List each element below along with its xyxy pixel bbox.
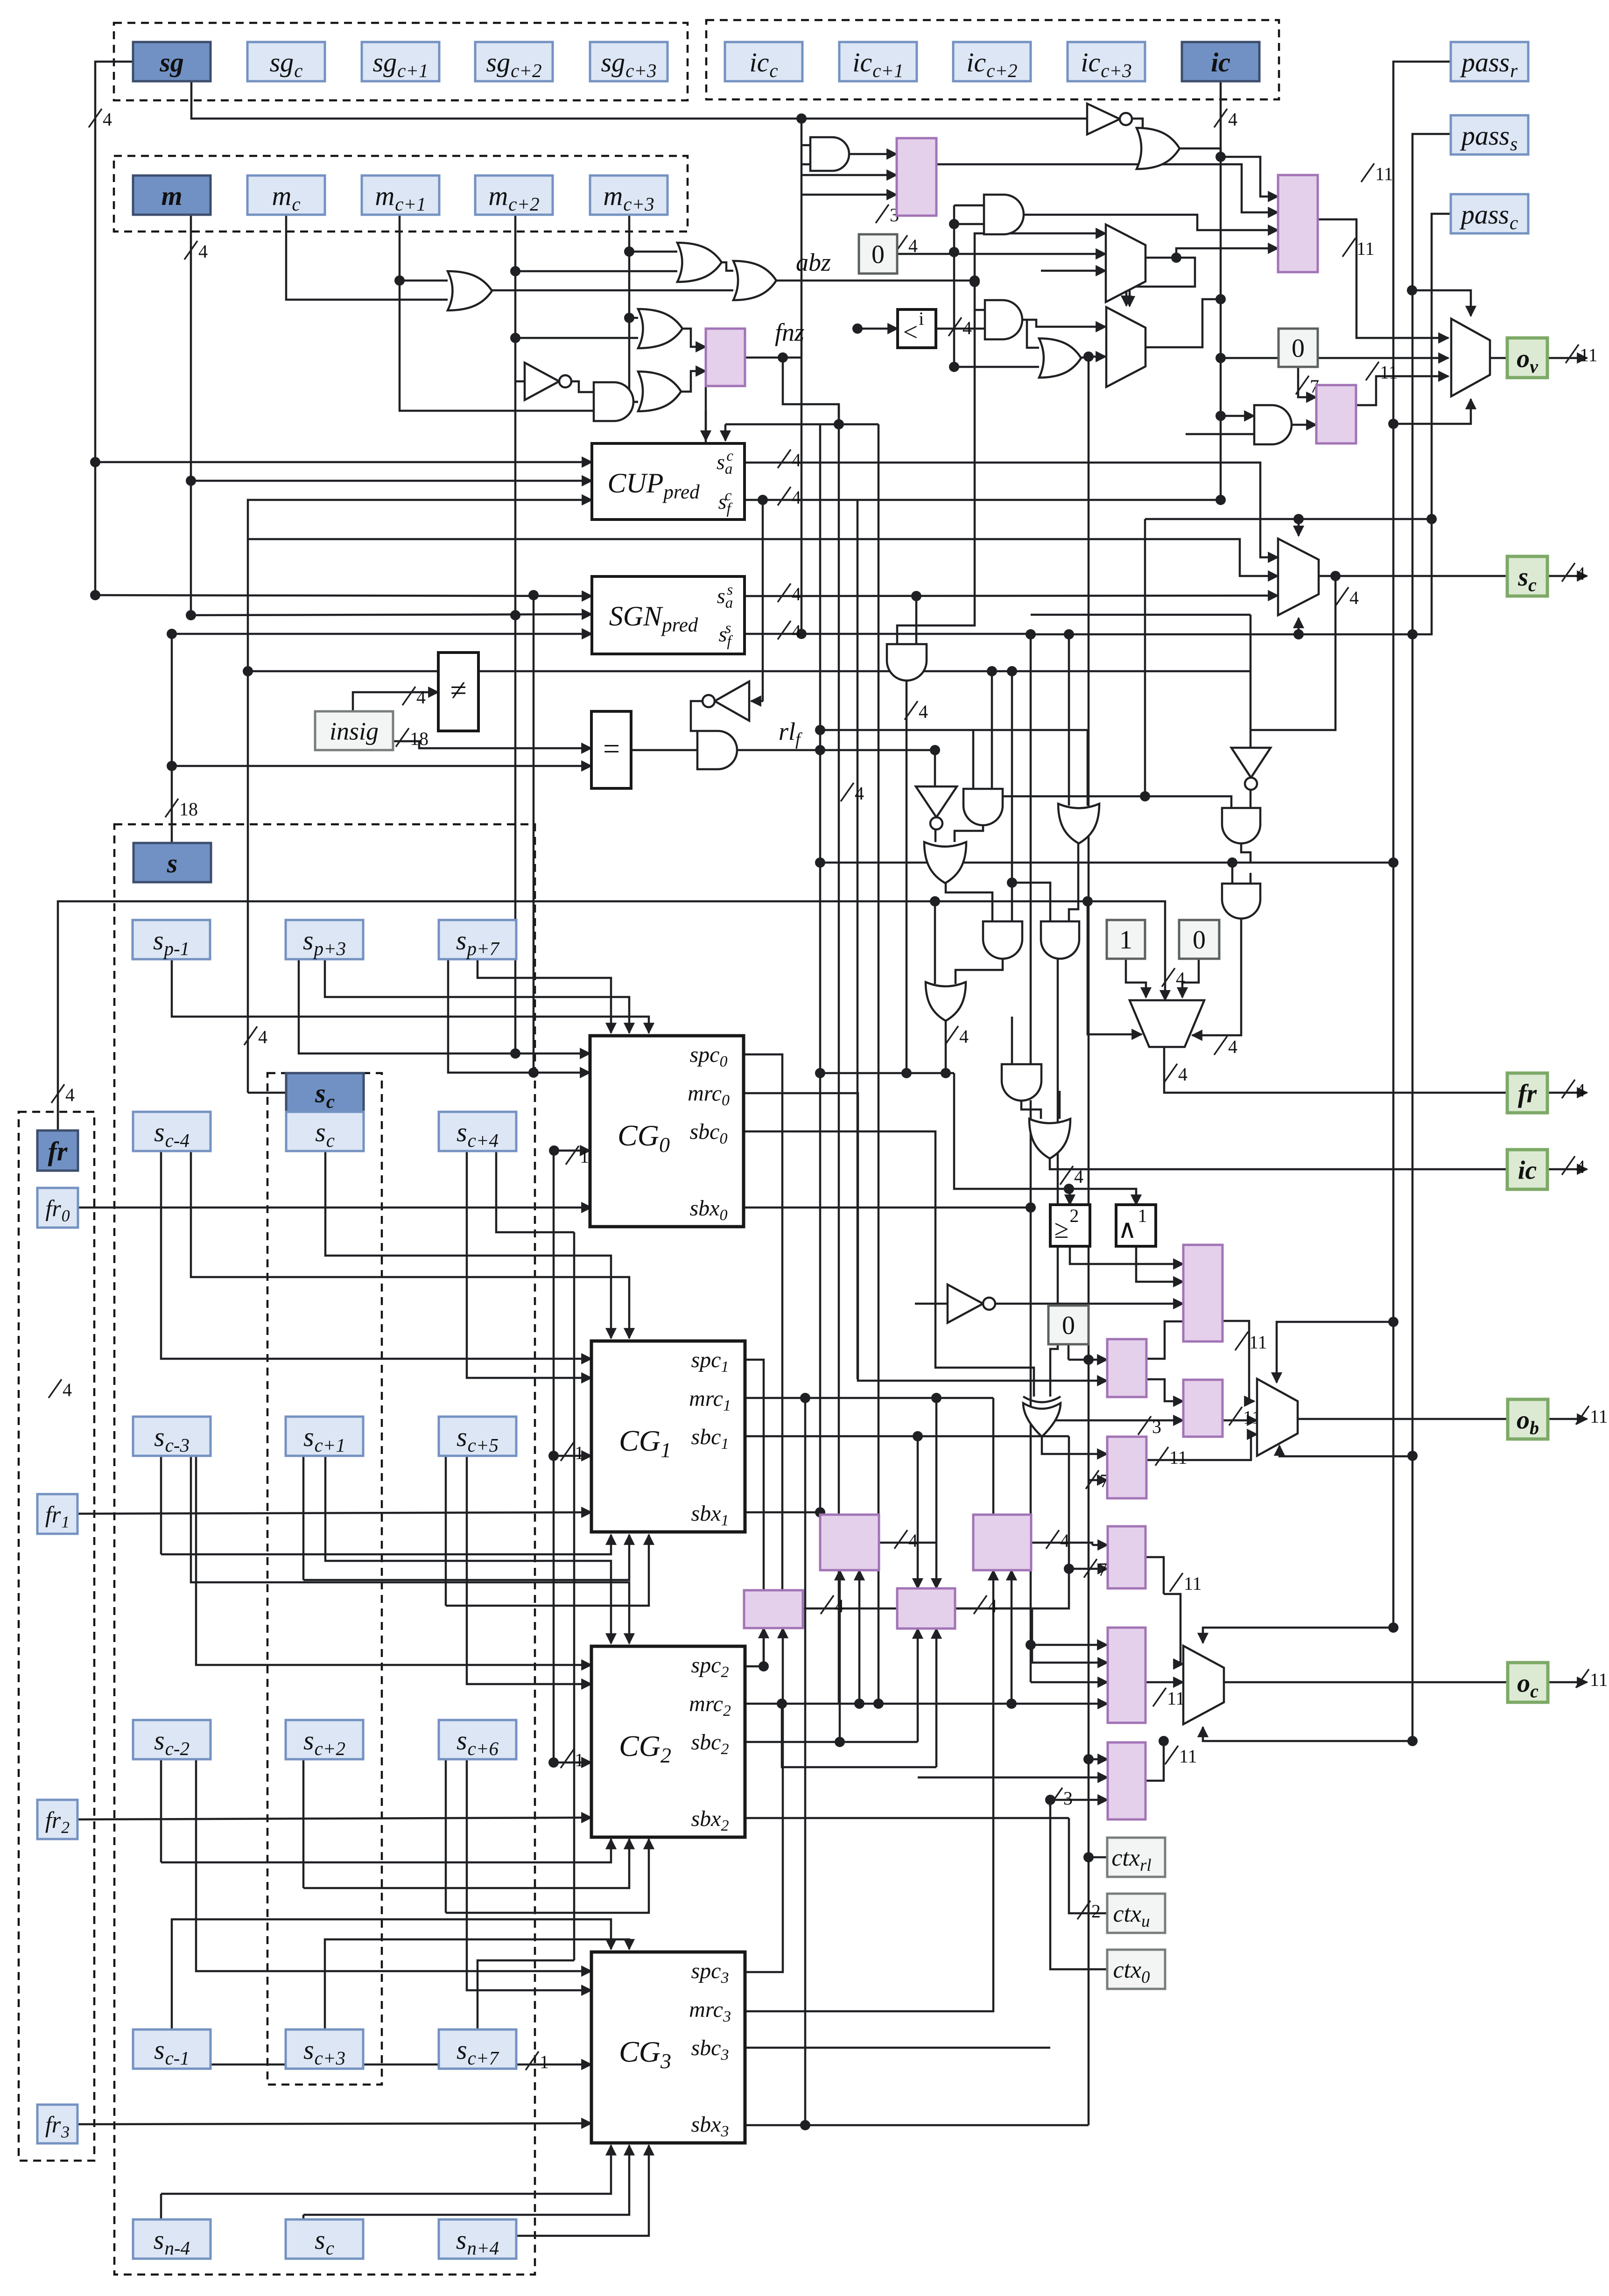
register m_c+3 (590, 176, 667, 215)
wire m_c+2 down (514, 214, 517, 615)
junction g24 out (941, 1068, 951, 1078)
wire s_c upward trunk (248, 500, 592, 1093)
junction neq in (243, 666, 253, 676)
junction or13 out (1083, 351, 1094, 362)
svg-text:4: 4 (1060, 1530, 1069, 1551)
wire or4 out to fnz mux (677, 329, 706, 347)
junction ic and14 (1216, 411, 1226, 421)
wire M4 sel top (1298, 519, 1300, 536)
junction y2299 b (901, 1068, 912, 1078)
mux box P6 (1107, 1339, 1146, 1397)
svg-text:4: 4 (959, 1026, 969, 1047)
slash 4 P12 (1046, 1530, 1059, 1549)
slash 4 rail (841, 783, 854, 801)
wire P14 in1 (1031, 1644, 1107, 1646)
wire s_c route b (325, 1151, 611, 1338)
mux M5 fr (1130, 1000, 1204, 1047)
svg-text:4: 4 (1074, 1166, 1083, 1187)
output fr (1507, 1073, 1547, 1113)
wire spc3 out (745, 1628, 783, 1972)
junction CUP in2 (186, 476, 196, 486)
slash 11 P14 (1153, 1688, 1166, 1706)
wire M4 top line (1202, 518, 1432, 520)
wire g15 in2 (915, 596, 918, 644)
wire CG3 in1 (196, 1760, 591, 1971)
svg-text:4: 4 (1576, 563, 1585, 584)
wire oc mux sel top (1203, 1628, 1393, 1643)
register pass_c (1451, 194, 1528, 233)
slash 1 CG2 (561, 1749, 574, 1768)
wire SGN input c (172, 633, 592, 635)
junction p3 bus3 (1171, 253, 1181, 263)
wire s upward trunk (171, 634, 173, 843)
wire m_c+3 tap or2 (629, 251, 677, 253)
register s_c bottom (286, 2219, 363, 2259)
wire s_p+3 route (325, 959, 629, 1033)
wire trunk x2088 (897, 281, 975, 644)
svg-text:fr: fr (48, 1136, 68, 1166)
junction SGN in2 (186, 610, 196, 620)
wire m_c+1 or tap (400, 280, 448, 282)
wire P13 out2 (1164, 1594, 1183, 1664)
register ctx_0 (1107, 1950, 1165, 1989)
wire P11 in1 (917, 1436, 919, 1588)
wire m_c+3 tap or4 (629, 317, 638, 319)
junction CUP in1 (90, 457, 100, 467)
wire CUP s_f^c out (745, 499, 1221, 501)
wire spc0 out (745, 1054, 782, 1590)
wire sbc0 out (745, 1131, 1034, 1397)
junction p15 out (1159, 1736, 1169, 1746)
junction m_c+3 a (624, 246, 634, 257)
slash 4 m (184, 241, 197, 260)
wire s_c-3 down (160, 1455, 162, 1554)
wire and12 out (1020, 320, 1106, 327)
wire P6 out up (1146, 1321, 1183, 1359)
wire ob arrow out (1548, 1418, 1587, 1420)
wire land1 out (1136, 1246, 1183, 1282)
junction y1848 b (1388, 857, 1398, 868)
junction x1634 tap (758, 495, 768, 505)
slash 4 SGNa (778, 583, 791, 602)
svg-text:11: 11 (1580, 344, 1598, 365)
wire CG1 in2 (467, 1151, 591, 1378)
wire trunk x2453 upper (1144, 519, 1146, 796)
junction x1143 (528, 590, 539, 600)
wire P3 inputs bus3 (1176, 248, 1278, 258)
wire M4 out down (1251, 576, 1335, 730)
wire and18 in1 (972, 730, 975, 789)
wire ic arrow out (1547, 1168, 1587, 1171)
wire y2547 to and1box (1069, 1189, 1136, 1205)
wire P9 out (879, 1542, 935, 1544)
wire M4 sel bottom (1298, 618, 1300, 634)
svg-text:11: 11 (1169, 1447, 1187, 1468)
svg-text:4: 4 (1349, 587, 1359, 608)
wire lt in (857, 328, 898, 330)
wire and14 in2 (1186, 433, 1254, 435)
wire M2 out (1145, 299, 1221, 347)
junction ic 1071 (1216, 495, 1226, 505)
wire P10 out (803, 1608, 1108, 1663)
wire P5 out (1223, 1321, 1254, 1401)
wire not32 in (915, 1303, 948, 1305)
wire CG0 in2 (448, 959, 590, 1073)
register s_c+3 (286, 2029, 363, 2069)
slash 11 P7 (1229, 1407, 1242, 1425)
wire m_c+2 tap or2 (515, 270, 677, 273)
mux box P2 fnz (706, 329, 745, 386)
wire P8 in (1089, 1479, 1107, 1482)
wire neq top input (248, 670, 438, 673)
wire trunk x2332 long (1088, 357, 1090, 2125)
wire eq out to and (631, 749, 697, 751)
wire m_c+2 tap not (515, 380, 525, 383)
mux box P12 (973, 1515, 1031, 1570)
wire ctx_0 in (1050, 1800, 1107, 1969)
svg-text:insig: insig (330, 717, 379, 745)
wire CG3 in2 (467, 1760, 591, 1990)
block CG_1 (591, 1341, 745, 1532)
junction ob sel b (1407, 1451, 1418, 1461)
wire or24 out (945, 1021, 947, 1073)
wire P14 out (1145, 1681, 1183, 1684)
junction y1848 start (815, 857, 825, 868)
mux box P8 (1107, 1437, 1146, 1498)
junction ob sel (1388, 1317, 1398, 1327)
junction lt tap (852, 323, 863, 334)
wire m_c+2 tap or4 (515, 337, 638, 339)
mux box P9 (820, 1515, 879, 1570)
svg-text:4: 4 (908, 1530, 918, 1551)
wire CUP s_a^c out (745, 463, 1278, 557)
dashed group s_c column (267, 1073, 382, 2085)
slash 4 fr trunk (51, 1084, 64, 1103)
wire P6 out down (1146, 1379, 1183, 1401)
junction sg bus and8 (796, 113, 807, 124)
output o_b (1508, 1399, 1548, 1439)
svg-text:=: = (603, 732, 620, 765)
svg-text:passs: passs (1460, 120, 1518, 154)
junction ic down (1216, 294, 1226, 304)
junction sbx1 tap (815, 1507, 825, 1517)
register sg_c (247, 42, 325, 81)
slash 2 ctxu (1077, 1901, 1090, 1919)
dashed group m registers (114, 156, 688, 232)
slash 4 sg (89, 109, 102, 127)
junction x1882 end (873, 1699, 884, 1709)
slash 4 CUPb (778, 487, 791, 506)
wire ob mux sel top (1277, 1322, 1393, 1383)
and gate G23 (1041, 921, 1079, 959)
wire or7 out to fnz mux (676, 371, 706, 392)
wire P15 out (1145, 1741, 1164, 1781)
wire s_c+6 down (445, 1760, 447, 1913)
slash 4 ic out (1060, 1166, 1073, 1185)
junction s eq (167, 761, 177, 771)
register s_c current (286, 1112, 364, 1151)
junction x2168 y1891 (1007, 878, 1017, 888)
junction y2547 (1064, 1184, 1074, 1194)
wire s_c+7 up (478, 1960, 574, 2029)
wire or21 out (1069, 843, 1078, 924)
wire P3 inputs bus2 (1022, 215, 1278, 230)
wire P1 in2 (801, 174, 897, 176)
wire oc mux sel bot (1203, 1727, 1412, 1741)
wire P15 in1 (1089, 1758, 1108, 1761)
slash 4 fr out (1562, 1080, 1575, 1098)
register m (133, 176, 211, 215)
register s_p+3 (286, 920, 363, 959)
dashed group s window (114, 824, 535, 2275)
svg-text:passr: passr (1460, 47, 1518, 81)
junction or13 in2 (949, 362, 959, 372)
output ic (1507, 1150, 1547, 1189)
wire m_c+1 down (400, 214, 594, 411)
junction x2125 y1438 (987, 666, 997, 676)
inverter G32 (948, 1285, 983, 1323)
block SGN_pred (592, 576, 745, 654)
dashed group sg registers (114, 23, 688, 100)
register fr_1 (37, 1494, 77, 1534)
wire and18 in2 (991, 671, 993, 789)
wire or24 in1 (934, 901, 936, 984)
wire SGN input a (95, 595, 592, 596)
wire fr feed (58, 901, 878, 1130)
slash 7 P13 (1084, 1559, 1097, 1578)
register s_c-2 (133, 1720, 211, 1759)
slash 4 fr M5 (1164, 1064, 1177, 1082)
and gate G30 (1002, 1064, 1041, 1101)
wire not16 out to and17 (691, 701, 703, 731)
wire fr2 long (77, 1818, 591, 1819)
svg-text:≠: ≠ (450, 674, 466, 707)
junction P13 in2 (1064, 1564, 1074, 1574)
slash 3 P15 (1049, 1788, 1062, 1806)
register sg_c+3 (590, 42, 667, 81)
wire not16 vertical (762, 500, 764, 701)
slash 4 ic green (1562, 1156, 1575, 1175)
junction mrc2 c (1006, 1699, 1017, 1709)
junction y2299 a (815, 1068, 825, 1078)
wire M1 out (1130, 258, 1195, 306)
wire s_p+7 route (478, 959, 611, 1033)
slash 11 P15 (1165, 1746, 1178, 1764)
wire s_c+4 down (496, 1151, 574, 1232)
wire fr3 long (77, 2123, 591, 2124)
wire or2 out (716, 262, 733, 271)
wire or13 out (1077, 357, 1089, 359)
svg-text:18: 18 (179, 799, 198, 820)
register fr_2 (37, 1800, 77, 1839)
register sg_c+1 (362, 42, 439, 81)
junction geq feed (1064, 1184, 1074, 1194)
svg-text:11: 11 (1375, 163, 1393, 184)
and gate G12 (985, 300, 1022, 339)
wire geq2 out (1070, 1246, 1183, 1264)
junction SGN in1 (90, 590, 100, 600)
svg-text:2: 2 (1091, 1901, 1101, 1922)
wire abz out (771, 280, 975, 282)
mux M7 o_c (1183, 1646, 1224, 1724)
wire not19 in (934, 750, 936, 786)
wire sbx3 out (745, 2124, 1089, 2127)
wire P1 out (936, 164, 1278, 212)
slash 11 P3b (1342, 238, 1356, 257)
wire g23 in2 branch (1012, 883, 1050, 924)
register s_c shadow (286, 1073, 364, 1112)
wire ov arrow out (1547, 357, 1587, 359)
wire CG1 bottom ladder 2 (303, 1535, 629, 1580)
wire P11 out (955, 1569, 1069, 1608)
output o_v (1507, 338, 1547, 378)
junction spc2 (759, 1661, 769, 1671)
wire M2 in2 (1089, 356, 1106, 358)
junction oc sel b (1407, 1736, 1418, 1746)
or gate G7 (638, 372, 681, 411)
wire mrc2 out (745, 1703, 1108, 1705)
wire and30 out to or31 (1021, 1100, 1041, 1119)
junction ov sel a (1407, 285, 1417, 295)
wire CG0 in1 (299, 959, 590, 1053)
wire CG2 bottom ladder 3 (446, 1839, 649, 1913)
inverter G5 (525, 363, 559, 400)
wire or13 in1 (1027, 320, 1039, 348)
svg-text:3: 3 (1152, 1416, 1161, 1437)
wire not32 out (994, 1303, 1183, 1305)
wire ov mux in2 (1221, 357, 1448, 359)
wire pass_c feed (1031, 214, 1451, 634)
junction CG2 sel (548, 1757, 559, 1768)
svg-text:sg: sg (159, 47, 184, 77)
wire and30 in2 (1030, 634, 1032, 1064)
slash 1 CG0 (566, 1146, 579, 1165)
slash 11 ov (1566, 344, 1579, 363)
junction g24 y1931 (930, 896, 940, 906)
svg-text:11: 11 (1590, 1669, 1608, 1690)
register m_c (247, 176, 325, 215)
wire xor32 out (1042, 1437, 1107, 1454)
slash 4 P11 (974, 1595, 987, 1614)
svg-text:sas: sas (717, 582, 733, 611)
wire fr0 long (78, 1207, 591, 1209)
wire m_c down (286, 214, 448, 300)
wire and6 out to or7 (632, 401, 638, 403)
svg-text:1: 1 (580, 1146, 589, 1167)
svg-text:0: 0 (1292, 334, 1305, 363)
inverter G19 (916, 786, 957, 817)
svg-text:1: 1 (575, 1442, 584, 1463)
svg-text:4: 4 (792, 487, 801, 508)
svg-text:11: 11 (1167, 1688, 1185, 1709)
svg-text:4: 4 (198, 241, 208, 262)
svg-text:11: 11 (1356, 238, 1375, 259)
register fr_0 (37, 1188, 78, 1228)
register ic_c+1 (839, 42, 917, 81)
wire not5 to and6 (568, 381, 594, 392)
junction fnz (778, 352, 788, 363)
junction sbc2 a (835, 1737, 845, 1747)
register s_c+6 (439, 1720, 516, 1759)
wire SGN input b (191, 614, 592, 615)
wire y1112 ext (1145, 518, 1202, 520)
register s_c+5 (439, 1417, 516, 1456)
or gate G11 (1137, 128, 1180, 169)
inverter G16 (715, 681, 749, 721)
mux M2 (1106, 307, 1145, 387)
wire trunk x2168 up (1011, 671, 1013, 924)
svg-text:sfs: sfs (718, 620, 733, 650)
wire y1706 rail (973, 796, 1231, 808)
or gate G20 (924, 842, 966, 883)
junction M4 sf (1026, 629, 1036, 639)
wire CUP input b (191, 480, 592, 482)
or gate G3 abz (733, 261, 776, 300)
xor gate G33 (1023, 1403, 1061, 1437)
or gate G1 (m_c, m_c+1) (448, 271, 492, 310)
block CG_2 (591, 1646, 745, 1837)
block CUP_pred (592, 443, 745, 520)
junction sbx0 t (1026, 1202, 1036, 1213)
svg-text:s: s (167, 848, 178, 878)
wire y1317 stub (1031, 614, 1251, 616)
wire trunk x2290 low (1068, 1436, 1070, 1569)
slash 11 P13 (1170, 1573, 1183, 1592)
junction m_c+3 b (624, 313, 634, 323)
slash 18 s (165, 799, 178, 817)
wire SGN s_a^s out (745, 596, 1278, 596)
wire g15 out (906, 680, 908, 1073)
wire CG1 bottom ladder 3 (446, 1535, 649, 1606)
wire or20 out (946, 883, 992, 924)
wire and23 out (1050, 958, 1058, 1397)
junction P14 in1 tap (1026, 1640, 1036, 1650)
wire y2299 rail (820, 1072, 954, 1074)
wire sbc3 out (745, 2047, 1050, 2049)
wire CG3 bottom 2 (303, 2145, 629, 2215)
slash 4 CUPa (778, 449, 791, 468)
or gate G31 (1029, 1119, 1070, 1159)
wire trunk x1882 (878, 424, 880, 1704)
mux box P5 (1183, 1245, 1223, 1341)
wire s_c+3 up (325, 1939, 629, 2029)
wire s_n+4 up (445, 2219, 447, 2236)
junction ctx0 (1045, 1795, 1055, 1805)
svg-text:1: 1 (575, 1749, 584, 1770)
svg-text:4: 4 (258, 1026, 267, 1047)
svg-text:11: 11 (1380, 362, 1398, 383)
and gate G9 (984, 195, 1024, 234)
wire s_c-1 up (172, 1919, 611, 2029)
slash 11 oc (1576, 1669, 1589, 1688)
wire neq out (478, 670, 820, 673)
svg-text:4: 4 (792, 621, 801, 642)
junction M4 bot b (1407, 629, 1418, 639)
output s_c (1507, 556, 1547, 596)
wire CG2 top b (325, 1455, 611, 1643)
wire and8 in2 (801, 163, 810, 166)
comparator not-equal (438, 653, 478, 731)
register ctx_u (1107, 1894, 1165, 1933)
wire and26 out (1241, 843, 1251, 863)
wire and30 in (1011, 1017, 1013, 1064)
register sg (133, 42, 211, 81)
wire insig to eq (393, 741, 591, 748)
wire P6 feed1 (1068, 1359, 1107, 1361)
slash 11 P3a (1361, 163, 1374, 182)
wire trunk x2044 top (953, 205, 956, 367)
wire s tap to eq (172, 765, 591, 767)
